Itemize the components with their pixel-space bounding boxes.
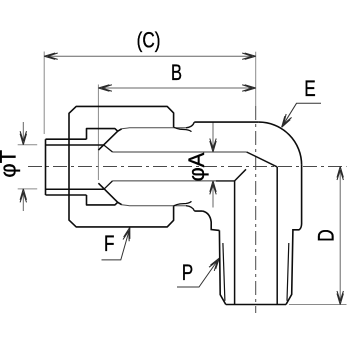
svg-text:P: P bbox=[182, 261, 193, 286]
centerline vertical leg axis bbox=[255, 106, 257, 313]
elbow outer corner arc bbox=[259, 122, 302, 165]
elbow right edge bbox=[293, 165, 302, 231]
bore line top (phi A) bbox=[113, 151, 247, 153]
sleeve upper outline bbox=[87, 129, 122, 140]
dimension phi T extension lines bbox=[18, 145, 38, 189]
svg-text:B: B bbox=[171, 61, 182, 86]
leg bore left wall bbox=[234, 181, 236, 305]
body neck bottom chamfer bbox=[186, 206, 194, 211]
label E leader bbox=[279, 77, 321, 129]
bore cone left top bbox=[104, 145, 113, 152]
bore line bottom (phi A) bbox=[113, 180, 217, 182]
stub outer top line bbox=[46, 138, 87, 140]
sleeve cone lower bbox=[98, 183, 117, 202]
body neck bottom line bbox=[122, 205, 186, 206]
thread left outer bbox=[219, 230, 225, 304]
dimension D extension bottom bbox=[289, 304, 347, 306]
extension line right for (C) and B bbox=[255, 52, 257, 106]
tube stub end face bbox=[45, 139, 47, 195]
leg left shoulder bbox=[203, 211, 220, 230]
body neck top line bbox=[122, 128, 186, 129]
label P leader bbox=[177, 256, 222, 287]
extension line left for (C) bbox=[43, 52, 45, 135]
bore cone lower diagonal bbox=[235, 169, 246, 181]
svg-text:D: D bbox=[315, 229, 340, 241]
body neck top chamfer bbox=[186, 122, 194, 128]
svg-text:φA: φA bbox=[184, 152, 209, 181]
thread bottom face bbox=[226, 304, 286, 306]
svg-text:(C): (C) bbox=[137, 28, 161, 53]
dimension (C) bbox=[44, 28, 256, 59]
thread right outer bbox=[286, 231, 293, 305]
sleeve retainer lower bbox=[174, 201, 192, 206]
svg-text:E: E bbox=[304, 77, 315, 102]
nut bbox=[69, 106, 174, 226]
bore cone left bottom bbox=[104, 181, 113, 189]
centerline horizontal axis bbox=[28, 166, 347, 168]
sleeve cone upper bbox=[98, 131, 117, 150]
dimension phi T bbox=[0, 122, 27, 211]
dimension D bbox=[315, 167, 344, 305]
sleeve lower outline bbox=[87, 195, 122, 205]
extension line for B bbox=[97, 85, 99, 181]
tube hole bottom line (phi T) bbox=[46, 188, 104, 190]
tube hole top line (phi T) bbox=[46, 144, 104, 146]
svg-text:F: F bbox=[104, 232, 114, 257]
svg-text:φT: φT bbox=[0, 150, 21, 178]
leg bore right wall bbox=[276, 167, 278, 305]
dimension B bbox=[98, 61, 255, 91]
bore cone right diagonal bbox=[247, 152, 278, 167]
body bottom line bbox=[194, 210, 202, 212]
sleeve retainer upper bbox=[174, 127, 192, 132]
bore line bottom dark segment bbox=[216, 180, 235, 182]
body top line bbox=[194, 121, 258, 123]
stub outer bottom line bbox=[46, 194, 87, 196]
label F leader bbox=[102, 227, 133, 260]
thread root left bbox=[223, 243, 225, 301]
thread root right bbox=[287, 243, 289, 301]
dimension phi A bbox=[184, 122, 216, 207]
